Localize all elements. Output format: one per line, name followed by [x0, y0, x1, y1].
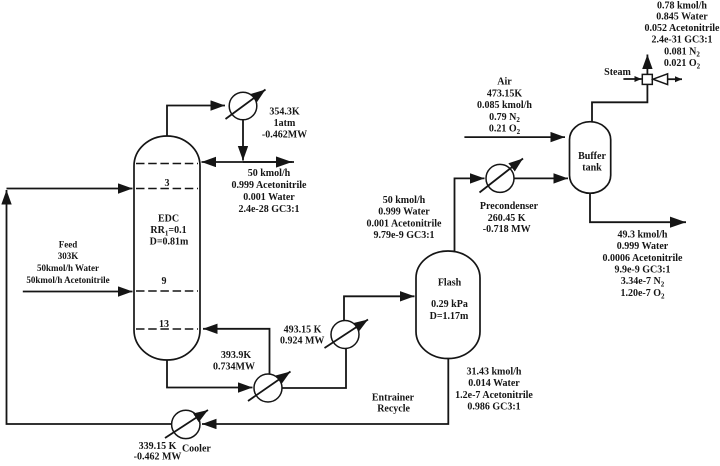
wire column top to condenser	[167, 106, 225, 137]
wire recycle into column tray 3	[7, 188, 133, 190]
svg-text:1.20e-7 O2: 1.20e-7 O2	[620, 288, 665, 300]
heater H2 diagonal arrow	[325, 320, 369, 349]
wire H2 to flash	[344, 296, 415, 320]
svg-text:13: 13	[159, 319, 169, 330]
svg-text:tank: tank	[582, 163, 602, 174]
svg-text:0.999 Water: 0.999 Water	[378, 207, 430, 218]
wire precondenser to buffer tank	[514, 177, 568, 179]
condenser diagonal arrow	[226, 90, 266, 120]
wire entrainer recycle up left side	[7, 190, 173, 424]
cooler circle	[172, 410, 200, 438]
svg-text:0.734MW: 0.734MW	[213, 361, 255, 372]
flash vessel	[416, 251, 480, 359]
svg-text:2.4e-31 GC3:1: 2.4e-31 GC3:1	[651, 35, 712, 46]
precondenser diagonal arrow	[480, 159, 524, 193]
column EDC vessel	[134, 136, 200, 360]
svg-text:Steam: Steam	[604, 67, 631, 78]
svg-text:354.3K: 354.3K	[269, 107, 300, 118]
svg-text:9: 9	[162, 276, 167, 287]
svg-text:3: 3	[165, 178, 170, 189]
wire buffer tank vent to valve	[592, 85, 647, 123]
svg-text:Air: Air	[497, 76, 512, 87]
svg-text:393.9K: 393.9K	[221, 350, 252, 361]
wire condenser down to reflux line	[242, 120, 244, 161]
svg-text:Feed: Feed	[59, 240, 78, 250]
svg-text:0.79 N2: 0.79 N2	[489, 112, 520, 124]
ejector cone	[653, 74, 668, 85]
svg-text:Precondenser: Precondenser	[480, 201, 539, 212]
wire H1 vapor return to tray 13	[203, 329, 270, 374]
svg-text:9.79e-9 GC3:1: 9.79e-9 GC3:1	[373, 230, 434, 241]
condenser circle	[229, 92, 257, 120]
svg-text:473.15K: 473.15K	[487, 88, 523, 99]
svg-text:1atm: 1atm	[274, 118, 296, 129]
svg-text:303K: 303K	[58, 251, 79, 261]
wire H1 to heater H2	[282, 349, 346, 389]
svg-text:-0.462MW: -0.462MW	[262, 130, 307, 141]
svg-text:0.845 Water: 0.845 Water	[656, 12, 708, 23]
svg-text:0.999 Acetonitrile: 0.999 Acetonitrile	[232, 180, 308, 191]
svg-text:Recycle: Recycle	[377, 403, 410, 414]
svg-text:2.4e-28 GC3:1: 2.4e-28 GC3:1	[238, 204, 299, 215]
svg-text:50kmol/h Water: 50kmol/h Water	[37, 263, 99, 273]
heater H1 circle	[254, 374, 282, 402]
svg-text:0.014 Water: 0.014 Water	[468, 378, 520, 389]
EDC tray 13 dashed line	[136, 328, 198, 330]
heater H1 diagonal arrow	[248, 372, 291, 402]
svg-text:49.3 kmol/h: 49.3 kmol/h	[617, 230, 667, 241]
svg-text:0.021 O2: 0.021 O2	[664, 58, 701, 70]
svg-text:Flash: Flash	[438, 278, 462, 289]
EDC tray 9 dashed line	[136, 290, 198, 292]
svg-text:50 kmol/h: 50 kmol/h	[383, 195, 426, 206]
svg-text:50 kmol/h: 50 kmol/h	[248, 168, 291, 179]
svg-text:0.21 O2: 0.21 O2	[489, 124, 521, 136]
svg-text:31.43 kmol/h: 31.43 kmol/h	[466, 366, 521, 377]
svg-text:D=0.81m: D=0.81m	[150, 237, 189, 248]
wire flash bottoms to cooler	[202, 359, 448, 425]
wire air into buffer tank	[464, 136, 565, 138]
svg-text:493.15 K: 493.15 K	[284, 325, 322, 336]
svg-text:Entrainer: Entrainer	[372, 393, 415, 404]
svg-text:0.081 N2: 0.081 N2	[664, 46, 700, 58]
wire ejector outlet	[668, 78, 682, 80]
heater H2 circle	[331, 321, 359, 349]
wire steam into valve	[623, 78, 641, 80]
svg-text:EDC: EDC	[158, 214, 179, 225]
svg-text:D=1.17m: D=1.17m	[430, 311, 469, 322]
svg-text:1.2e-7 Acetonitrile: 1.2e-7 Acetonitrile	[455, 390, 533, 401]
svg-text:0.986 GC3:1: 0.986 GC3:1	[467, 401, 520, 412]
svg-text:0.999 Water: 0.999 Water	[617, 241, 669, 252]
wire reflux into column	[202, 161, 295, 163]
svg-text:0.924 MW: 0.924 MW	[280, 336, 324, 347]
svg-text:0.052 Acetonitrile: 0.052 Acetonitrile	[645, 23, 720, 34]
svg-text:0.78 kmol/h: 0.78 kmol/h	[657, 0, 707, 11]
wire buffer tank bottom product	[590, 193, 686, 222]
svg-text:0.29 kPa: 0.29 kPa	[431, 299, 468, 310]
precondenser circle	[486, 164, 514, 192]
svg-text:0.001 Acetonitrile: 0.001 Acetonitrile	[367, 218, 443, 229]
svg-text:0.085 kmol/h: 0.085 kmol/h	[477, 100, 532, 111]
wire flash vapor to precondenser	[455, 178, 485, 251]
EDC tray 3 dashed line	[136, 188, 198, 190]
valve square	[642, 74, 652, 84]
svg-text:Buffer: Buffer	[578, 151, 606, 162]
buffer tank vessel	[570, 122, 611, 194]
cooler diagonal arrow	[165, 410, 208, 438]
svg-text:260.45 K: 260.45 K	[488, 213, 526, 224]
svg-text:0.001 Water: 0.001 Water	[243, 192, 295, 203]
wire distillate product out	[243, 161, 292, 163]
svg-text:50kmol/h Acetonitrile: 50kmol/h Acetonitrile	[26, 275, 109, 285]
svg-text:Cooler: Cooler	[182, 444, 211, 455]
EDC top dashed stage line	[136, 163, 198, 165]
svg-text:3.34e-7 N2: 3.34e-7 N2	[621, 276, 665, 288]
svg-text:-0.718 MW: -0.718 MW	[483, 224, 531, 235]
wire column bottoms to heater H1	[167, 360, 253, 388]
vent arrow up	[646, 55, 648, 75]
svg-text:0.0006 Acetonitrile: 0.0006 Acetonitrile	[603, 253, 684, 264]
svg-text:-0.462 MW: -0.462 MW	[134, 451, 182, 461]
svg-text:9.9e-9 GC3:1: 9.9e-9 GC3:1	[614, 265, 670, 276]
wire feed into column tray 9	[23, 291, 133, 293]
